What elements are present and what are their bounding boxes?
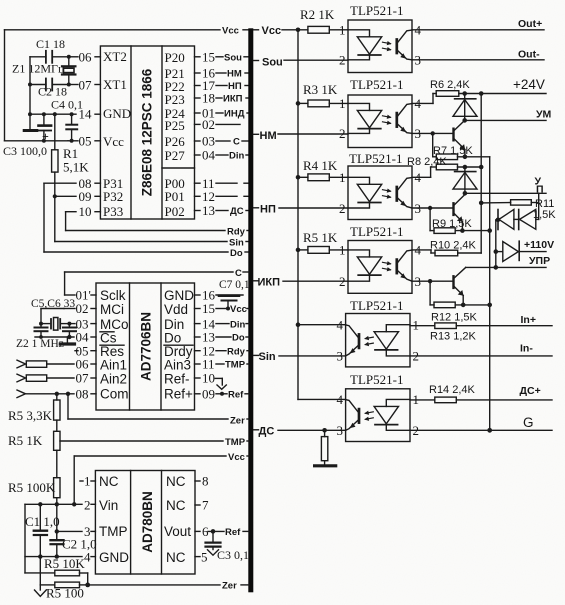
svg-text:Vout: Vout	[164, 524, 191, 539]
wire P32 row	[55, 195, 76, 197]
resistor R1 5,1K	[52, 114, 90, 241]
resistor R14 2,4K	[410, 384, 552, 403]
wire Vcc line ADC	[74, 452, 249, 504]
pin 05	[68, 134, 100, 149]
wire Do line	[44, 251, 249, 253]
svg-text:ИКП: ИКП	[223, 94, 243, 105]
svg-text:ИНД: ИНД	[224, 109, 245, 120]
pin 11 Ain3 TMP	[195, 357, 250, 372]
wire Rdy line	[66, 230, 249, 232]
ground DS pulldown	[315, 464, 336, 467]
pin 08 Com	[76, 387, 97, 402]
svg-text:C4 0,1: C4 0,1	[51, 98, 83, 112]
wire UPR line	[466, 255, 550, 267]
pin 01 IND	[195, 106, 250, 121]
diode D3 +110V	[496, 239, 554, 262]
svg-text:XT2: XT2	[103, 49, 127, 64]
svg-text:TLP521-1: TLP521-1	[350, 224, 403, 239]
svg-text:5: 5	[201, 549, 208, 564]
capacitor C2 18	[30, 79, 71, 99]
svg-text:Rdy: Rdy	[227, 227, 246, 238]
wire left xtal rail	[28, 57, 32, 114]
svg-text:R6 2,4K: R6 2,4K	[430, 79, 470, 91]
svg-text:R5 100K: R5 100K	[8, 480, 56, 495]
wire UM line	[462, 109, 551, 123]
resistor R11 1,5K	[479, 198, 556, 221]
node Do label	[230, 248, 243, 259]
svg-text:НМ: НМ	[260, 130, 277, 142]
resistor R7 1,5K	[433, 133, 490, 159]
wire GND pin4 row	[25, 554, 82, 558]
diode D2	[453, 167, 477, 193]
svg-text:Ref: Ref	[228, 390, 244, 401]
svg-text:Do: Do	[232, 333, 245, 344]
svg-text:P23: P23	[165, 92, 185, 107]
wire Vcc rail corner to U9 pin4	[298, 325, 346, 400]
svg-text:TMP: TMP	[225, 360, 246, 371]
svg-text:02: 02	[202, 117, 215, 132]
capacitor C3 0,1 ref	[206, 531, 250, 562]
resistor R2 1K	[300, 7, 348, 33]
svg-text:P32: P32	[103, 189, 123, 204]
node Sin right	[254, 351, 346, 363]
svg-text:GND: GND	[164, 288, 194, 303]
input terminal Ain2	[17, 374, 74, 382]
svg-text:AD7706BN: AD7706BN	[139, 312, 154, 381]
svg-text:P25: P25	[165, 118, 185, 133]
svg-text:In+: In+	[521, 314, 536, 326]
pin 12 Rdy	[195, 343, 250, 358]
svg-text:Ref+: Ref+	[164, 387, 193, 402]
pin 3 TMP	[84, 524, 95, 539]
svg-text:Ain1: Ain1	[100, 358, 127, 373]
wire vertical rail B	[489, 157, 491, 431]
svg-text:C3 100,0: C3 100,0	[3, 144, 47, 158]
wire Vcc left vertical	[4, 30, 6, 141]
transistor Q3	[412, 267, 466, 305]
svg-text:Out+: Out+	[518, 18, 542, 30]
wire In+ label	[521, 314, 536, 326]
svg-text:+110V: +110V	[524, 239, 554, 251]
wire DS+ label	[520, 385, 541, 397]
input terminal Ain1	[17, 360, 74, 368]
svg-text:MCi: MCi	[100, 302, 124, 317]
wire MCi to crystal	[41, 309, 64, 324]
svg-text:R14 2,4K: R14 2,4K	[429, 384, 476, 396]
optocoupler U5 TLP521-1	[339, 77, 422, 148]
svg-text:Vdd: Vdd	[164, 302, 188, 317]
pin 02	[195, 117, 241, 132]
svg-text:Ain3: Ain3	[164, 358, 191, 373]
svg-text:R4 1K: R4 1K	[303, 158, 338, 173]
resistor R5 10K	[44, 556, 88, 585]
svg-text:7: 7	[202, 498, 209, 513]
svg-text:Z86E08 12PSC 1866: Z86E08 12PSC 1866	[140, 68, 155, 196]
optocoupler U4 TLP521-1	[339, 3, 422, 73]
svg-text:3: 3	[337, 423, 344, 438]
svg-text:R5 10K: R5 10K	[44, 556, 85, 571]
node Sou right	[254, 57, 349, 69]
crystal Z1 12MHz	[12, 57, 75, 85]
pin 15 Vdd Vcc	[195, 301, 250, 316]
node NP right	[254, 204, 349, 216]
diode pair clamp	[496, 209, 539, 229]
svg-text:5,1K: 5,1K	[63, 160, 89, 175]
microcontroller U1 Z86E08 12PSC 1866	[100, 46, 194, 219]
pin 16 NM	[195, 66, 250, 81]
resistor R13 1,2K	[410, 323, 552, 343]
svg-text:4: 4	[84, 549, 91, 564]
svg-text:8: 8	[202, 474, 209, 489]
capacitor C3 100,0	[3, 114, 51, 158]
wire +24V line	[459, 77, 546, 96]
diode D1	[453, 94, 477, 121]
crystal Z2 1MHz	[16, 298, 75, 350]
svg-text:NC: NC	[166, 474, 186, 489]
svg-text:1: 1	[339, 23, 346, 38]
svg-text:C3 0,1: C3 0,1	[217, 548, 249, 562]
wire G line	[410, 415, 552, 433]
optocoupler U9 TLP521-1 flipped	[337, 372, 420, 442]
svg-text:12: 12	[202, 189, 215, 204]
svg-text:Vcc: Vcc	[222, 26, 239, 37]
svg-text:1: 1	[84, 474, 91, 489]
svg-text:NC: NC	[99, 474, 119, 489]
svg-text:TLP521-1: TLP521-1	[350, 77, 403, 92]
wire Vcc top line	[5, 29, 221, 31]
svg-text:04: 04	[202, 148, 216, 163]
resistor R10 2,4K	[412, 240, 481, 256]
svg-text:XT1: XT1	[103, 77, 127, 92]
pin 07 Ain2	[76, 371, 97, 386]
pin 18 IKP	[195, 91, 250, 106]
pin 10	[79, 204, 101, 219]
pin 04 Cs	[76, 330, 97, 345]
pin 07	[69, 78, 101, 93]
svg-text:2: 2	[339, 201, 346, 216]
svg-text:GND: GND	[103, 106, 131, 121]
capacitor C4 0,1	[51, 98, 83, 141]
svg-text:TLP521-1: TLP521-1	[350, 372, 403, 387]
pin 13 Do	[195, 330, 250, 345]
pin 04 Din	[195, 148, 250, 163]
svg-text:C2 1,0: C2 1,0	[62, 537, 97, 552]
wire Zer bottom line	[85, 581, 249, 592]
pin 01 Sclk	[65, 288, 96, 303]
wire U P line	[463, 176, 546, 196]
svg-text:TMP: TMP	[99, 524, 128, 539]
svg-text:P20: P20	[165, 50, 185, 65]
optocoupler U7 TLP521-1	[339, 224, 422, 293]
svg-text:Out-: Out-	[518, 49, 540, 61]
svg-text:TLP521-1: TLP521-1	[350, 3, 403, 18]
svg-text:R5 1K: R5 1K	[303, 230, 338, 245]
pin 05 Res	[75, 343, 96, 358]
svg-text:НП: НП	[228, 81, 242, 92]
capacitor C7 0,1	[219, 279, 250, 311]
resistor R3 1K	[298, 82, 348, 107]
svg-text:УМ: УМ	[536, 109, 552, 121]
wire TMP line	[60, 437, 249, 448]
node Sin label	[229, 238, 244, 249]
pin 1 NC	[80, 474, 95, 489]
svg-text:18: 18	[202, 91, 215, 106]
pin 03 MCo	[69, 316, 96, 331]
svg-text:C5,C6 33: C5,C6 33	[31, 298, 75, 310]
svg-text:Din: Din	[230, 319, 246, 330]
resistor R5 3,3K	[8, 394, 60, 432]
node Rdy label	[227, 227, 246, 238]
pin 11	[195, 176, 250, 191]
pin 5 NC	[195, 549, 208, 564]
svg-text:R5 1K: R5 1K	[8, 433, 43, 448]
svg-text:09: 09	[202, 387, 215, 402]
svg-text:Rdy: Rdy	[227, 346, 246, 357]
svg-text:03: 03	[202, 134, 215, 149]
wire P31 row	[44, 183, 76, 252]
capacitor C6	[63, 324, 76, 337]
pin 10 Ref- arrow	[195, 371, 227, 390]
pin 12	[195, 189, 250, 204]
wire Zer drop	[68, 394, 249, 427]
ground xtal caps	[60, 337, 74, 344]
svg-text:НМ: НМ	[227, 69, 242, 80]
svg-text:P02: P02	[165, 204, 185, 219]
svg-text:Din: Din	[229, 151, 245, 162]
wire Out+ line	[412, 18, 544, 30]
wire vertical rail A	[480, 94, 482, 254]
bus connector line	[248, 28, 253, 592]
wire Vcc row pin05	[5, 139, 74, 143]
svg-text:P27: P27	[165, 148, 186, 163]
svg-text:13: 13	[202, 203, 215, 218]
optocoupler U6 TLP521-1	[339, 151, 422, 220]
wire Vcc rail right	[296, 30, 301, 400]
svg-text:P33: P33	[103, 204, 123, 219]
svg-text:C: C	[233, 137, 240, 148]
svg-text:C7 0,1: C7 0,1	[219, 279, 250, 291]
svg-text:10: 10	[79, 204, 92, 219]
svg-text:+24V: +24V	[513, 77, 545, 92]
input terminal Com	[17, 390, 74, 398]
svg-text:TLP521-1: TLP521-1	[349, 151, 402, 166]
svg-text:Zer: Zer	[222, 581, 237, 592]
svg-text:In-: In-	[520, 343, 533, 355]
pin 17 NP	[195, 78, 250, 93]
svg-text:Vcc: Vcc	[262, 25, 282, 37]
svg-text:ДС: ДС	[230, 206, 244, 217]
svg-text:AD780BN: AD780BN	[140, 491, 155, 553]
svg-text:Com: Com	[100, 387, 129, 402]
svg-text:09: 09	[79, 189, 92, 204]
svg-text:Sin: Sin	[259, 351, 276, 363]
svg-text:1: 1	[339, 96, 346, 111]
svg-text:NC: NC	[166, 498, 186, 513]
wire P drop	[538, 193, 540, 219]
node Vcc right	[254, 25, 308, 37]
wire C line from Sclk	[65, 268, 249, 295]
svg-text:Ref: Ref	[225, 527, 241, 538]
ADC U2 AD7706BN	[96, 283, 195, 410]
capacitor C1 18	[30, 37, 71, 63]
pin 06	[69, 50, 101, 65]
svg-text:Sou: Sou	[262, 57, 283, 69]
resistor R5 1K vertical	[8, 431, 60, 477]
svg-text:Sin: Sin	[229, 238, 244, 249]
capacitor C1 1,0	[25, 504, 60, 556]
node Vcc label left	[222, 26, 249, 37]
node IKP right	[254, 277, 349, 289]
svg-text:06: 06	[79, 50, 93, 65]
svg-text:Vin: Vin	[99, 498, 118, 513]
pin 06 Ain1	[76, 357, 97, 372]
svg-text:07: 07	[79, 78, 93, 93]
resistor R5 1K opto	[298, 230, 348, 253]
wire In- line	[410, 343, 552, 356]
capacitor C2 1,0	[51, 531, 97, 556]
voltage reference U3 AD780BN	[95, 471, 195, 575]
node NM right	[254, 130, 349, 142]
svg-text:07: 07	[76, 371, 90, 386]
svg-text:02: 02	[76, 301, 89, 316]
pin 08	[79, 176, 101, 191]
svg-text:Z1 12МГц: Z1 12МГц	[12, 62, 65, 76]
svg-text:Zer: Zer	[230, 416, 245, 427]
svg-text:R13 1,2K: R13 1,2K	[430, 331, 477, 343]
svg-text:2: 2	[339, 274, 346, 289]
wire Cs row	[35, 335, 74, 339]
svg-text:ДС+: ДС+	[520, 385, 541, 397]
pin 09	[79, 189, 101, 204]
svg-text:R12 1,5K: R12 1,5K	[431, 312, 478, 324]
pin 15 Sou	[195, 50, 250, 65]
pin 6 Vout Ref	[195, 524, 249, 539]
svg-text:2: 2	[339, 126, 346, 141]
wire Sin line	[55, 241, 249, 243]
svg-text:Ref-: Ref-	[164, 372, 190, 387]
svg-text:Vcc: Vcc	[228, 452, 245, 463]
ground arrow AD780	[35, 585, 47, 596]
svg-text:11: 11	[202, 357, 215, 372]
wire TMP pin3	[55, 529, 82, 533]
transistor Q2	[412, 195, 465, 231]
svg-text:R3 1K: R3 1K	[303, 82, 338, 97]
svg-text:НП: НП	[260, 204, 276, 216]
svg-text:C1 18: C1 18	[36, 37, 65, 51]
svg-text:15: 15	[202, 301, 215, 316]
svg-text:P26: P26	[165, 134, 186, 149]
optocoupler U8 TLP521-1 flipped	[337, 298, 420, 367]
svg-text:10: 10	[202, 371, 215, 386]
resistor R6 2,4K	[412, 79, 470, 103]
svg-text:G: G	[523, 415, 534, 430]
svg-text:Do: Do	[230, 248, 243, 259]
svg-text:УПР: УПР	[529, 255, 550, 267]
pin 8 NC	[195, 474, 209, 489]
svg-text:Sou: Sou	[224, 53, 242, 64]
svg-text:08: 08	[76, 387, 89, 402]
resistor R4 1K	[298, 158, 348, 181]
svg-text:ИКП: ИКП	[258, 277, 281, 289]
svg-text:R2 1K: R2 1K	[300, 7, 335, 22]
pin 14	[79, 107, 101, 122]
svg-text:1: 1	[339, 170, 346, 185]
pin 2 Vin	[84, 498, 95, 513]
svg-text:TLP521-1: TLP521-1	[350, 298, 403, 313]
node DS right	[254, 426, 346, 438]
svg-text:NC: NC	[166, 550, 186, 565]
svg-text:2: 2	[84, 498, 91, 513]
resistor R5 100	[40, 557, 87, 601]
svg-text:05: 05	[79, 134, 92, 149]
ground	[24, 114, 37, 130]
resistor R5 100K	[8, 478, 60, 540]
pin 14 Din	[195, 316, 250, 331]
resistor pulldown DS	[321, 428, 327, 465]
svg-text:Ain2: Ain2	[100, 372, 127, 387]
svg-text:15: 15	[202, 50, 215, 65]
svg-text:06: 06	[76, 357, 90, 372]
wire P33 row	[66, 212, 76, 231]
resistor R12 1,5K	[430, 281, 492, 323]
svg-text:ДС: ДС	[259, 426, 275, 438]
capacitor C5	[35, 324, 48, 337]
svg-text:Vcc: Vcc	[103, 134, 124, 149]
svg-text:GND: GND	[99, 550, 129, 565]
svg-text:П: П	[536, 184, 544, 196]
svg-text:R5 3,3K: R5 3,3K	[8, 408, 53, 423]
svg-text:Vcc: Vcc	[230, 304, 247, 315]
svg-text:Z2 1 MHz: Z2 1 MHz	[16, 338, 64, 350]
svg-text:R8 2,4K: R8 2,4K	[407, 156, 447, 168]
pin 16 GND C7	[195, 288, 244, 303]
svg-text:P01: P01	[165, 189, 185, 204]
wire GND row	[28, 112, 76, 116]
wire Out- line	[412, 49, 544, 61]
svg-text:Sclk: Sclk	[100, 288, 126, 303]
svg-text:C1 1,0: C1 1,0	[25, 514, 60, 529]
pin 03 C	[195, 134, 250, 149]
pin 4 GND	[84, 549, 95, 564]
pin 02 MCi	[64, 301, 96, 316]
wire left rail AD780	[25, 504, 55, 573]
pin 09 Ref+	[195, 387, 250, 402]
svg-text:2: 2	[339, 53, 346, 68]
transistor Q1	[412, 120, 465, 156]
svg-text:3: 3	[337, 349, 344, 364]
pin 7 NC	[195, 498, 209, 513]
resistor R8 2,4K	[407, 156, 484, 177]
svg-text:C: C	[235, 268, 242, 279]
svg-text:TMP: TMP	[225, 437, 246, 448]
wire Vin row	[25, 502, 82, 506]
wire clamp vertical	[494, 220, 499, 270]
svg-text:1: 1	[339, 243, 346, 258]
pin 13 DS	[195, 203, 250, 218]
resistor R9 1,5K	[430, 208, 492, 233]
